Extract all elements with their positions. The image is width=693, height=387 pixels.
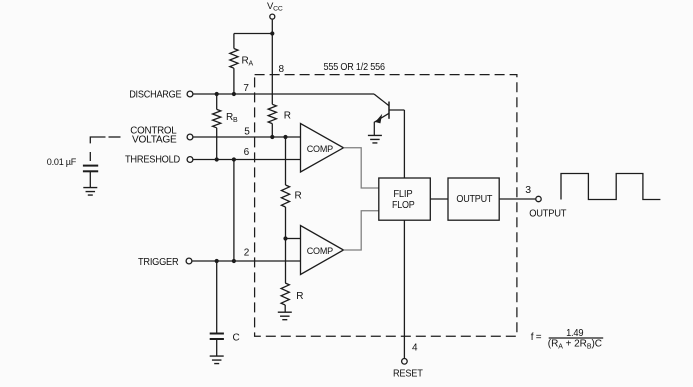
frequency formula f = 1.49 / (RA + 2RB)C	[531, 328, 604, 350]
resistor RB	[213, 94, 238, 160]
node trigger-threshold junction	[232, 259, 236, 263]
IC boundary dashed box 555	[255, 75, 517, 337]
transistor Q1 discharge	[374, 94, 404, 135]
wire threshold to trigger	[233, 160, 235, 262]
capacitor C2 0.01uF	[47, 157, 98, 188]
svg-text:R: R	[296, 291, 303, 302]
wire trigger pin 2 line	[192, 260, 301, 262]
ground below bottom R	[278, 312, 292, 320]
svg-text:555 OR 1/2 556: 555 OR 1/2 556	[324, 61, 386, 73]
svg-text:f =: f =	[531, 332, 542, 343]
wire COMP2 output to flip flop	[344, 211, 379, 250]
ground below timing cap	[210, 356, 224, 364]
svg-text:OUTPUT: OUTPUT	[456, 194, 492, 205]
node VCC junction	[270, 31, 274, 35]
svg-text:TRIGGER: TRIGGER	[138, 257, 178, 268]
resistor R internal bottom	[281, 239, 303, 313]
op-amp COMP 2 (trigger comparator)	[301, 226, 344, 275]
node pin5 divider junction	[283, 135, 287, 139]
wire dashed control voltage to bypass cap	[90, 137, 120, 161]
wire threshold pin 6 line	[193, 159, 301, 161]
svg-text:DISCHARGE: DISCHARGE	[129, 89, 182, 100]
wire COMP1 output to flip flop	[344, 148, 379, 188]
svg-text:3: 3	[525, 184, 531, 196]
svg-text:RESET: RESET	[393, 369, 423, 380]
terminal VCC	[267, 1, 283, 19]
svg-text:0.01 µF: 0.01 µF	[47, 157, 77, 168]
wire discharge pin 7 line	[193, 93, 374, 95]
node RB-threshold junction	[215, 157, 219, 161]
svg-text:OUTPUT: OUTPUT	[529, 208, 566, 219]
node comp2 plus input junction	[283, 236, 287, 240]
svg-text:R: R	[295, 190, 302, 201]
resistor R internal middle	[281, 137, 301, 239]
capacitor C1 timing C	[210, 261, 240, 356]
wire VCC to RA top	[234, 33, 272, 35]
svg-text:8: 8	[279, 64, 285, 75]
svg-text:COMP: COMP	[307, 246, 333, 257]
ground below bypass cap	[83, 188, 97, 196]
svg-text:2: 2	[244, 248, 250, 259]
svg-text:COMP: COMP	[307, 144, 333, 155]
node R-top to pin5 junction	[270, 135, 274, 139]
wire flip flop to output block	[430, 198, 448, 200]
svg-text:FLOP: FLOP	[392, 200, 415, 211]
svg-text:6: 6	[244, 147, 250, 158]
svg-text:THRESHOLD: THRESHOLD	[125, 155, 180, 166]
node threshold-trigger junction	[232, 157, 236, 161]
output block	[448, 178, 499, 220]
terminal RESET	[393, 359, 423, 380]
node trigger-cap junction	[215, 259, 219, 263]
wire control voltage pin 5 line	[193, 136, 301, 138]
wire flip flop to reset pin 4	[403, 220, 405, 358]
terminal THRESHOLD	[125, 155, 193, 166]
terminal OUTPUT pin 3	[525, 184, 566, 219]
resistor R internal top	[268, 104, 291, 137]
svg-text:VOLTAGE: VOLTAGE	[132, 135, 177, 146]
svg-text:FLIP: FLIP	[393, 189, 413, 200]
wire transistor base to flip flop	[403, 110, 405, 178]
svg-text:R: R	[284, 110, 291, 121]
svg-text:7: 7	[243, 83, 249, 94]
flip flop block	[379, 178, 431, 220]
ground below transistor emitter	[368, 135, 382, 143]
wire divider node to COMP2 input	[286, 238, 301, 240]
node discharge-RA junction	[232, 92, 236, 96]
wire VCC vertical to pin 8	[271, 20, 273, 105]
resistor RA	[230, 34, 254, 95]
terminal TRIGGER	[138, 257, 192, 268]
svg-text:(RA + 2RB)C: (RA + 2RB)C	[548, 339, 602, 351]
wire output block to pin 3	[499, 198, 535, 200]
terminal CONTROL VOLTAGE	[130, 125, 193, 145]
output square waveform	[561, 174, 660, 200]
svg-text:4: 4	[412, 343, 418, 354]
node discharge-RB junction	[215, 92, 219, 96]
svg-text:C: C	[233, 333, 240, 344]
terminal DISCHARGE	[129, 89, 193, 100]
op-amp COMP 1 (threshold comparator)	[301, 124, 344, 173]
svg-text:5: 5	[244, 126, 250, 137]
